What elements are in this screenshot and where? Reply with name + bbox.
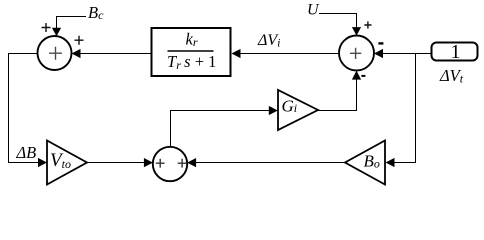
plus sign at U input: [364, 21, 371, 28]
block kr/(Tr s+1) fraction bar: [168, 50, 214, 52]
arrowhead into S3 left: [144, 158, 153, 167]
wire S3 output up and right into Gi: [171, 111, 272, 148]
plus sign at Bc input: [42, 23, 51, 32]
gain triangle Gi: [278, 90, 318, 130]
minus sign at S2 right input: [378, 42, 383, 44]
summing junction S2 (top right): [339, 36, 374, 71]
wire S1 output left and down to Vto: [9, 54, 43, 163]
wire Bc input into S1: [57, 17, 87, 30]
block kr/(Tr s+1): [152, 28, 231, 76]
arrowhead into kr right: [232, 49, 241, 58]
svg-text:U: U: [307, 2, 320, 19]
arrowhead into S1 right: [72, 49, 81, 58]
arrowhead into S2 right: [374, 49, 383, 58]
gain triangle Bo: [345, 141, 385, 185]
block 1 (rounded): [432, 43, 478, 61]
wire kr output to S1 right: [78, 53, 152, 55]
svg-text:Tr s + 1: Tr s + 1: [167, 52, 216, 72]
wire U input into S2 top: [319, 14, 357, 30]
wire Bo output into S3 right: [193, 162, 345, 164]
arrowhead into Gi: [269, 106, 278, 115]
plus sign inside S3 left: [156, 159, 165, 168]
minus sign at S2 bottom input: [361, 75, 365, 77]
arrowhead into S2 bottom: [352, 71, 361, 80]
svg-text:ΔB: ΔB: [16, 143, 37, 162]
arrowhead U into S2 top: [352, 27, 361, 35]
plus sign inside S3 right: [178, 159, 187, 168]
plus sign at S1 right input: [75, 36, 84, 45]
plus sign inside S1: [49, 47, 62, 60]
arrowhead into Vto: [38, 158, 47, 167]
wire Gi output up into S2 bottom: [318, 77, 357, 111]
arrowhead into Bo right: [386, 158, 395, 167]
wire S2 output left to kr block: [238, 53, 339, 55]
arrowhead into S3 right: [187, 158, 196, 167]
wire block 1 to S2 right (branch node at x=415): [381, 53, 432, 55]
wire Vto output into S3 left: [87, 162, 147, 164]
svg-text:ΔVi: ΔVi: [257, 32, 281, 50]
arrowhead Bc into S1 top: [52, 28, 61, 37]
gain triangle Vto: [47, 141, 87, 185]
wire branch down from node to Bo input: [391, 54, 416, 163]
summing junction S1 (top left): [38, 36, 72, 70]
svg-text:1: 1: [451, 41, 461, 63]
summing junction S3 (bottom middle): [153, 147, 187, 181]
plus sign inside S2: [350, 48, 361, 59]
